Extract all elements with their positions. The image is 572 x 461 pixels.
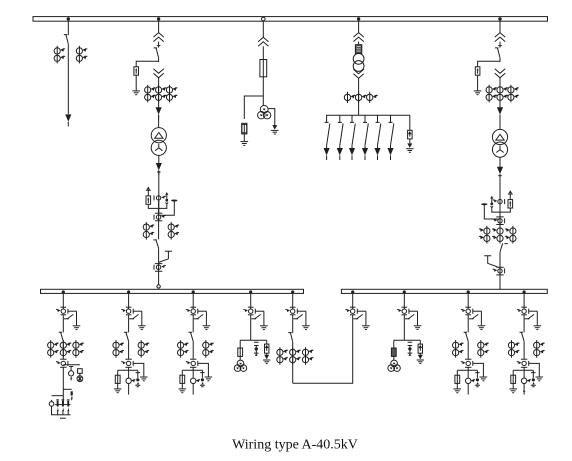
wire L1 bbox=[62, 341, 64, 359]
ground R3 arrester bbox=[480, 377, 488, 381]
wire T2 drop bbox=[158, 21, 160, 33]
node bus tap L5 bbox=[291, 290, 294, 293]
drawout bar L23 bbox=[125, 366, 131, 368]
arrow T5 primary bbox=[497, 107, 503, 119]
surge arrester R4 A bbox=[531, 370, 535, 378]
node bus tap T5 bbox=[498, 17, 501, 20]
wire feeder 3 bbox=[351, 145, 353, 148]
node bus tap T3 bbox=[262, 17, 266, 21]
node bus tap L4 bbox=[249, 290, 252, 293]
withdrawable contact T5 upper bbox=[495, 33, 505, 42]
wire feeder 5 bbox=[377, 145, 379, 148]
surge arrester F1 bbox=[134, 67, 139, 75]
earthing switch L4 bbox=[251, 311, 267, 329]
arrow TM2 secondary bbox=[497, 167, 503, 179]
wire T2 lv bbox=[158, 201, 160, 239]
wire feeder drop 4 bbox=[363, 115, 367, 122]
switch S4 blade bbox=[365, 124, 368, 146]
earthing switch R1 bbox=[353, 311, 369, 329]
wire R4 tick bbox=[523, 390, 525, 392]
node bus tap R2 bbox=[403, 290, 406, 293]
current transformer R3 TA1 bbox=[461, 361, 473, 366]
svg-text:Wiring type A-40.5kV: Wiring type A-40.5kV bbox=[232, 438, 358, 453]
wire T4 bbox=[358, 42, 360, 45]
arrester L4 center bbox=[254, 342, 259, 347]
node T5 to bus W3 bbox=[498, 289, 502, 293]
drawout bar R33 bbox=[465, 366, 471, 368]
drawout bar L4 upper bbox=[248, 306, 254, 308]
wire T2 lv arrester bbox=[147, 190, 149, 196]
drawout bar L4 lower bbox=[248, 314, 254, 316]
earthing switch L1 bbox=[64, 311, 80, 329]
fuse R3 FU bbox=[456, 370, 458, 375]
wire L2 drop bbox=[128, 293, 130, 309]
drawout bar L5 lower bbox=[290, 314, 296, 316]
earthing switch R3 bbox=[469, 311, 485, 329]
earth arrow L4 bbox=[263, 355, 270, 364]
fuse FU2 bbox=[242, 124, 247, 132]
current transformer L5a bbox=[277, 347, 288, 365]
current transformer L3b bbox=[203, 340, 214, 358]
wire T1 main bbox=[67, 44, 69, 114]
node bus tap R4 bbox=[523, 290, 526, 293]
current transformer L5b bbox=[302, 347, 313, 365]
wire L3 arrester branch bbox=[198, 363, 209, 376]
current transformer TA6b bbox=[492, 226, 503, 244]
current transformer T2 lv CT2 bbox=[154, 215, 166, 220]
current transformer L1b bbox=[73, 340, 84, 358]
drawout bar L3 upper bbox=[190, 306, 196, 308]
wire T4 mid bbox=[358, 78, 360, 115]
wire secondary down bbox=[158, 170, 160, 213]
drawout bar L1 lower bbox=[61, 314, 67, 316]
current transformer L5m bbox=[290, 347, 301, 365]
current transformer TA1b bbox=[76, 46, 87, 64]
circuit breaker QF2 blade bbox=[153, 240, 158, 249]
drawout bar L1 upper bbox=[61, 306, 67, 308]
wire L1 branch2 bbox=[63, 388, 71, 390]
motor L1 wheel bbox=[77, 376, 83, 382]
wire L3 pt branch bbox=[182, 367, 202, 378]
current transformer R4 TA0 bbox=[517, 309, 529, 314]
load arrow feeder 2 bbox=[337, 148, 343, 160]
wire T2 bbox=[158, 78, 160, 108]
withdrawable contact T2 lower bbox=[153, 69, 163, 78]
fuse R4 FU bbox=[512, 370, 514, 375]
wire R4 end bbox=[523, 384, 525, 395]
drawout bar R1 upper bbox=[350, 306, 356, 308]
wire F4 bbox=[409, 139, 411, 144]
drawout contact T5 bar bbox=[496, 216, 503, 218]
current transformer R3a bbox=[453, 340, 464, 358]
wire T5 lv bbox=[499, 205, 501, 242]
wire FU2 ground bbox=[243, 134, 245, 141]
current transformer TA4b bbox=[355, 92, 366, 103]
wire L1 drop bbox=[62, 293, 64, 309]
drawout bar L3 lower bbox=[190, 314, 196, 316]
wire L2 pt branch bbox=[118, 367, 138, 378]
earthing switch QE2 bbox=[159, 251, 172, 262]
surge arrester L3 A bbox=[200, 370, 204, 378]
current transformer TA3a bbox=[143, 222, 154, 240]
disconnector L2 blade bbox=[124, 332, 129, 341]
wire feeder 4 bbox=[364, 145, 366, 148]
wire R3 pt branch bbox=[457, 367, 477, 378]
fuse FU3 filled bbox=[355, 45, 361, 54]
wire TM2 down bbox=[499, 174, 501, 217]
drawout bar R4 upper bbox=[521, 306, 527, 308]
current transformer L3 TA0 bbox=[186, 309, 198, 314]
switch S1 blade bbox=[327, 124, 330, 146]
drawout contact T5 bar2 bbox=[496, 224, 503, 226]
surge arrester L2 A bbox=[136, 370, 140, 378]
wire T5 lv lower bbox=[499, 252, 501, 290]
drawout bar T5 bbox=[496, 267, 503, 275]
current transformer L2 TA1 bbox=[121, 361, 133, 366]
wire L2 bbox=[128, 341, 130, 359]
fuse L4 FU bbox=[239, 340, 241, 348]
surge arrester L4 right bbox=[266, 340, 268, 344]
wire feeder drop 1 bbox=[325, 115, 329, 122]
ground R4 FU bbox=[509, 389, 517, 393]
node bus tap R1 bbox=[351, 290, 354, 293]
wire T5 lv arrester link bbox=[500, 208, 510, 212]
section busbar W2 bbox=[41, 289, 304, 293]
wire feeder drop 2 bbox=[338, 115, 342, 122]
current transformer L3 TA1 bbox=[186, 361, 198, 366]
wire feeder drop 6 bbox=[389, 115, 393, 122]
current transformer L1 TA0 bbox=[56, 309, 68, 314]
wire T5 mid bbox=[499, 78, 501, 108]
node bus tap T1 bbox=[67, 17, 70, 20]
wire L1 down bbox=[62, 367, 64, 403]
wire T2 bbox=[157, 42, 161, 48]
ground R4 arrester bbox=[536, 377, 544, 381]
drawout bar L22 bbox=[125, 358, 131, 360]
ground FU2 bbox=[241, 142, 249, 146]
wire L2 end bbox=[128, 384, 130, 395]
wire R3 bbox=[467, 341, 469, 359]
current transformer R3 TA0 bbox=[461, 309, 473, 314]
wire L5 bbox=[292, 342, 294, 384]
surge arrester R3 A bbox=[475, 370, 479, 378]
circuit breaker QF3 blade bbox=[495, 48, 500, 58]
switch S5 blade bbox=[378, 124, 381, 146]
voltage transformer R4 PT bbox=[521, 378, 526, 383]
voltage transformer R2 TV bbox=[388, 360, 400, 371]
current transformer R2 TA0 bbox=[397, 309, 409, 314]
wire L1 right branch bbox=[63, 364, 80, 366]
wire L3 end bbox=[192, 384, 194, 395]
earthing switch QE4 bbox=[484, 256, 497, 267]
voltage transformer L3 PT bbox=[191, 378, 196, 383]
ground L2 FU bbox=[114, 389, 122, 393]
wire L5 drop bbox=[292, 293, 294, 309]
earthing switch R2 bbox=[405, 311, 421, 329]
current transformer TA lv2 bbox=[154, 265, 166, 270]
wire arrester drop bbox=[409, 115, 411, 130]
drawout bar L5 upper bbox=[290, 306, 296, 308]
voltage transformer L4 TV bbox=[234, 360, 246, 371]
current transformer TA3b bbox=[168, 222, 179, 240]
circuit breaker QF4 blade bbox=[500, 243, 508, 252]
ground F1 bbox=[132, 91, 140, 95]
wire T5 bbox=[498, 42, 502, 48]
wire L4 header bbox=[240, 339, 267, 341]
wire T2 to branch bbox=[158, 58, 160, 62]
wire T2 lv lower bbox=[158, 248, 160, 284]
current transformer L2 TA0 bbox=[121, 309, 133, 314]
fuse FU1 bbox=[260, 60, 267, 77]
arrow T2 primary bbox=[156, 107, 162, 119]
wire feeder 6 bbox=[390, 145, 392, 148]
wire L5 mid bbox=[292, 315, 294, 333]
wire T4 header bbox=[326, 114, 410, 116]
voltage tap T2 stub bbox=[165, 192, 168, 195]
ground L2 arrester bbox=[140, 377, 148, 381]
node open connector to bus W2 bbox=[157, 285, 160, 288]
load arrow feeder 5 bbox=[374, 148, 380, 160]
disconnector QS1 blade bbox=[64, 35, 69, 44]
main 40.5kV busbar W1 bbox=[33, 17, 548, 22]
current transformer TA6a bbox=[479, 226, 490, 244]
current transformer TA4a bbox=[344, 92, 355, 103]
section busbar W3 bbox=[341, 289, 547, 293]
wire R4 mid bbox=[523, 315, 525, 332]
current transformer L3a bbox=[178, 340, 189, 358]
disconnector R4 blade bbox=[520, 332, 525, 341]
wire R4 arrester branch bbox=[529, 363, 540, 376]
withdrawable contact T5 lower bbox=[495, 69, 505, 78]
earthing transformer T0 bbox=[353, 53, 364, 64]
disconnector L5 blade bbox=[288, 333, 292, 342]
drawout bar R3 lower bbox=[465, 314, 471, 316]
current transformer R3b bbox=[478, 340, 489, 358]
earth arrow TV1 bbox=[271, 125, 278, 134]
arrester R2 center bbox=[408, 342, 413, 347]
ground R3 FU bbox=[454, 389, 462, 393]
surge arrester T2 lv discharge arrow bbox=[147, 187, 151, 190]
switch S3 blade bbox=[352, 124, 355, 146]
voltage transformer TV1 bbox=[258, 105, 271, 119]
wire feeder drop 3 bbox=[350, 115, 354, 122]
disconnector L1 blade bbox=[59, 332, 64, 341]
current transformer TA4c bbox=[367, 92, 378, 103]
wire feeder 2 bbox=[339, 145, 341, 148]
wire L3 drop bbox=[192, 293, 194, 309]
current transformer R4 TA1 bbox=[517, 361, 529, 366]
current transformer TA2b bbox=[156, 85, 167, 103]
node bus tap L1 bbox=[62, 290, 65, 293]
ground F5 bbox=[474, 91, 482, 95]
earth arrow F4 bbox=[406, 143, 413, 152]
current transformer L5 TA0 bbox=[285, 309, 297, 314]
switch S6 blade bbox=[391, 124, 394, 146]
drawout bar L13 bbox=[60, 366, 66, 368]
capacitor bushing T5 bbox=[481, 203, 487, 205]
current transformer TA5b bbox=[497, 85, 508, 103]
current transformer TA6c bbox=[505, 226, 516, 244]
current transformer L2a bbox=[113, 340, 124, 358]
withdrawable contact T3 bbox=[258, 37, 268, 46]
surge arrester T5 lv bbox=[508, 200, 513, 208]
voltage tap T5 stub bbox=[490, 196, 493, 199]
wire R2 drop bbox=[403, 293, 405, 309]
drawout bar R4 lower bbox=[521, 314, 527, 316]
voltage transformer L2 PT bbox=[126, 378, 131, 383]
node bus tap L3 bbox=[192, 290, 195, 293]
arrester L1 left bbox=[50, 396, 52, 402]
node bus tap T2 bbox=[157, 17, 160, 20]
node bus tap L2 bbox=[127, 290, 130, 293]
current transformer TA5a bbox=[486, 85, 497, 103]
earthing switch L3 bbox=[194, 311, 210, 329]
fuse L1 d2 bbox=[78, 369, 83, 374]
wire TM1 secondary bbox=[158, 155, 160, 163]
earthing switch L5 bbox=[293, 311, 309, 329]
wire R4 drop bbox=[523, 293, 525, 309]
wire R3 end bbox=[467, 384, 469, 395]
drawout bar L33 bbox=[190, 366, 196, 368]
arrow TM1 secondary bbox=[156, 163, 162, 175]
wire R3 arrester branch bbox=[473, 363, 484, 376]
wire R3 mid bbox=[467, 315, 469, 332]
wire T3 drop bbox=[262, 21, 264, 38]
wire R2 mid bbox=[403, 315, 405, 340]
fuse L2 FU bbox=[117, 370, 119, 375]
drawout bar L2 upper bbox=[126, 306, 132, 308]
withdrawable contact T4 bbox=[353, 33, 363, 42]
drawout bar R2 upper bbox=[402, 306, 408, 308]
wire R1 drop bbox=[352, 293, 354, 309]
wire feeder 1 bbox=[326, 145, 328, 148]
drawout bar L32 bbox=[190, 358, 196, 360]
node bus tap R3 bbox=[467, 290, 470, 293]
voltage transformer R3 PT bbox=[466, 378, 471, 383]
current transformer TA2c bbox=[166, 85, 177, 103]
transformer TM1 delta-wye bbox=[151, 128, 166, 156]
capacitor bushing T2 bbox=[171, 200, 177, 202]
current transformer TA1a bbox=[54, 46, 65, 64]
drawout bar R2 lower bbox=[402, 314, 408, 316]
wire to transformer TM2 bbox=[499, 115, 501, 130]
drawout contact T2 bar bbox=[155, 212, 162, 214]
load arrow T1 bbox=[65, 114, 71, 126]
current transformer L4 TA0 bbox=[243, 309, 255, 314]
metering cluster L1 bbox=[55, 404, 71, 406]
drawout bar bbox=[155, 264, 162, 272]
wire T5 to branch bbox=[499, 58, 501, 62]
wire T3 to junction bbox=[262, 77, 264, 106]
fuse L3 FU bbox=[181, 370, 183, 375]
drawout bar L12 bbox=[60, 358, 66, 360]
wire branch to FU2 bbox=[244, 96, 263, 119]
wire bus tie link bbox=[293, 315, 353, 383]
wire TV1 to ground arrow bbox=[268, 109, 275, 126]
drawout bar R32 bbox=[465, 358, 471, 360]
node bus tap T4 bbox=[357, 17, 360, 20]
earthing switch L2 bbox=[129, 311, 145, 329]
fuse R2 FU bbox=[393, 340, 395, 348]
ground L3 arrester bbox=[205, 377, 213, 381]
drawout bar R1 lower bbox=[350, 314, 356, 316]
current transformer TA5c bbox=[508, 85, 519, 103]
wire L4 mid bbox=[250, 315, 252, 340]
wire R3 drop bbox=[467, 293, 469, 309]
transformer TM2 delta-wye bbox=[492, 129, 507, 157]
earthing switch R4 bbox=[525, 311, 541, 329]
wire TM2 secondary bbox=[499, 157, 501, 167]
current transformer T5 lv CT1 bbox=[493, 199, 505, 204]
fuse link L1 bbox=[71, 391, 73, 395]
current transformer L1m bbox=[60, 340, 71, 358]
current transformer L1 TA1 bbox=[56, 361, 68, 366]
current transformer R4a bbox=[508, 340, 519, 358]
wire L3 bbox=[192, 341, 194, 359]
wire F1 to ground bbox=[135, 75, 137, 91]
drawout bar R3 upper bbox=[465, 306, 471, 308]
surge arrester T5 lv discharge arrow bbox=[509, 190, 513, 193]
load arrow feeder 1 bbox=[324, 148, 330, 160]
current transformer TA lv5 bbox=[493, 268, 505, 273]
wire L1 branch3 bbox=[52, 395, 64, 397]
drawout bar R42 bbox=[521, 358, 527, 360]
wire feeder drop 5 bbox=[376, 115, 380, 122]
current transformer R1 TA0 bbox=[345, 309, 357, 314]
current transformer L2b bbox=[138, 340, 149, 358]
arrester L1 d1 bbox=[69, 367, 73, 372]
wire T3 bbox=[262, 46, 264, 59]
current transformer T2 lv CT1 bbox=[154, 195, 166, 200]
drawout contact T2 bar2 bbox=[155, 220, 162, 222]
wire to transformer bbox=[158, 115, 160, 128]
withdrawable contact T4 lower bbox=[353, 69, 363, 78]
disconnector L3 blade bbox=[189, 332, 194, 341]
current transformer L1a bbox=[48, 340, 59, 358]
wire R2 header bbox=[394, 339, 421, 341]
current transformer R4b bbox=[534, 340, 545, 358]
wire T1 drop bbox=[67, 21, 69, 35]
current transformer TA2a bbox=[145, 85, 156, 103]
wire L3 mid bbox=[192, 315, 194, 332]
earth arrow R2 bbox=[417, 355, 424, 364]
withdrawable contact T2 upper bbox=[153, 33, 163, 42]
disconnector R3 blade bbox=[464, 332, 469, 341]
load arrow feeder 6 bbox=[387, 148, 393, 160]
wire T4 drop bbox=[358, 21, 360, 33]
wire L2 arrester branch bbox=[133, 363, 144, 376]
wire L1 mid bbox=[62, 315, 64, 332]
current transformer T5 lv CT2 bbox=[493, 218, 505, 223]
wire F5 to ground bbox=[477, 75, 479, 91]
surge arrester R2 right bbox=[419, 340, 421, 344]
surge arrester T2 lv bbox=[146, 196, 151, 204]
drawout bar R43 bbox=[521, 366, 527, 368]
surge arrester F5 bbox=[475, 67, 480, 75]
wire branch to arrester F1 bbox=[136, 61, 158, 67]
wire R4 pt branch bbox=[513, 367, 533, 378]
surge arrester F4 bbox=[408, 130, 413, 139]
load arrow feeder 4 bbox=[362, 148, 368, 160]
wire T5 drop bbox=[499, 21, 501, 33]
wire T2 lv arrester link bbox=[148, 204, 158, 208]
drawout bar L2 lower bbox=[126, 314, 132, 316]
ground L3 FU bbox=[179, 389, 187, 393]
load arrow feeder 3 bbox=[349, 148, 355, 160]
wire L2 mid bbox=[128, 315, 130, 332]
wire branch to arrester F5 bbox=[478, 61, 500, 67]
wire L4 drop bbox=[250, 293, 252, 309]
